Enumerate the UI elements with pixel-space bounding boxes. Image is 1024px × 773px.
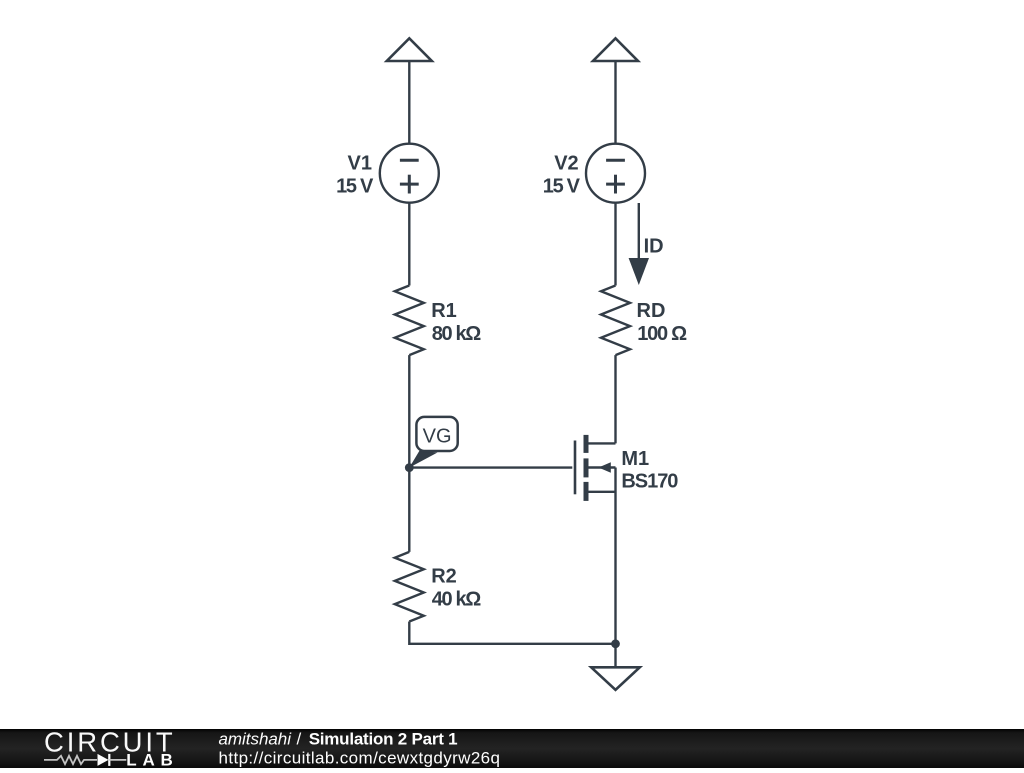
svg-text:Simulation 2 Part 1: Simulation 2 Part 1 bbox=[309, 730, 458, 749]
wire V1 to R1 bbox=[408, 203, 410, 286]
svg-text:amitshahi: amitshahi bbox=[219, 730, 293, 749]
svg-text:15 V: 15 V bbox=[543, 176, 581, 198]
label M1 BS170 bbox=[621, 448, 678, 493]
svg-text:RD: RD bbox=[637, 300, 666, 322]
svg-text:VG: VG bbox=[423, 426, 452, 448]
current arrow ID bbox=[629, 203, 649, 285]
resistor RD bbox=[601, 286, 630, 356]
wire gate from node VG bbox=[409, 466, 572, 468]
svg-text:LAB: LAB bbox=[126, 751, 173, 768]
wire RD to M1 drain bbox=[614, 355, 616, 443]
label R2 40 kOhm bbox=[431, 565, 481, 610]
CircuitLab logo bbox=[44, 727, 173, 770]
voltage source V1 bbox=[380, 144, 439, 203]
footer branding bar bbox=[0, 729, 1024, 768]
wire V2 top bbox=[614, 61, 616, 144]
transistor M1 bbox=[575, 435, 616, 644]
wire node VG to R2 bbox=[408, 468, 410, 552]
power flag for V2 bbox=[593, 38, 638, 61]
resistor R1 bbox=[395, 286, 424, 356]
junction dot bottom rail bbox=[611, 639, 620, 648]
wire V2 to RD bbox=[614, 203, 616, 286]
svg-text:M1: M1 bbox=[621, 448, 649, 470]
label R1 80 kOhm bbox=[431, 300, 481, 345]
footer title text bbox=[219, 730, 501, 768]
svg-text:BS170: BS170 bbox=[621, 471, 678, 493]
svg-text:80 kΩ: 80 kΩ bbox=[432, 323, 482, 345]
power flag for V1 bbox=[387, 38, 432, 61]
label V1 15 V bbox=[336, 153, 374, 198]
resistor R2 bbox=[395, 552, 424, 622]
wire R1 to node VG bbox=[408, 355, 410, 468]
svg-text:R1: R1 bbox=[431, 300, 457, 322]
junction node dot VG bbox=[405, 463, 414, 472]
svg-text:40 kΩ: 40 kΩ bbox=[432, 588, 482, 610]
svg-text:V1: V1 bbox=[348, 153, 372, 175]
node VG flag bbox=[409, 417, 457, 468]
svg-text:/: / bbox=[297, 730, 302, 749]
wire junction to ground bbox=[614, 644, 616, 668]
wire R2 to bottom rail bbox=[409, 622, 615, 644]
voltage source V2 bbox=[586, 144, 645, 203]
svg-text:ID: ID bbox=[644, 236, 664, 258]
label ID bbox=[644, 236, 664, 258]
svg-text:15 V: 15 V bbox=[336, 176, 374, 198]
svg-text:100 Ω: 100 Ω bbox=[637, 323, 687, 345]
svg-text:V2: V2 bbox=[554, 153, 578, 175]
wire V1 top bbox=[408, 61, 410, 144]
label V2 15 V bbox=[543, 153, 581, 198]
svg-text:http://circuitlab.com/cewxtgdy: http://circuitlab.com/cewxtgdyrw26q bbox=[219, 748, 501, 767]
ground bbox=[591, 667, 640, 690]
label RD 100 Ohm bbox=[637, 300, 688, 345]
svg-text:R2: R2 bbox=[431, 565, 457, 587]
